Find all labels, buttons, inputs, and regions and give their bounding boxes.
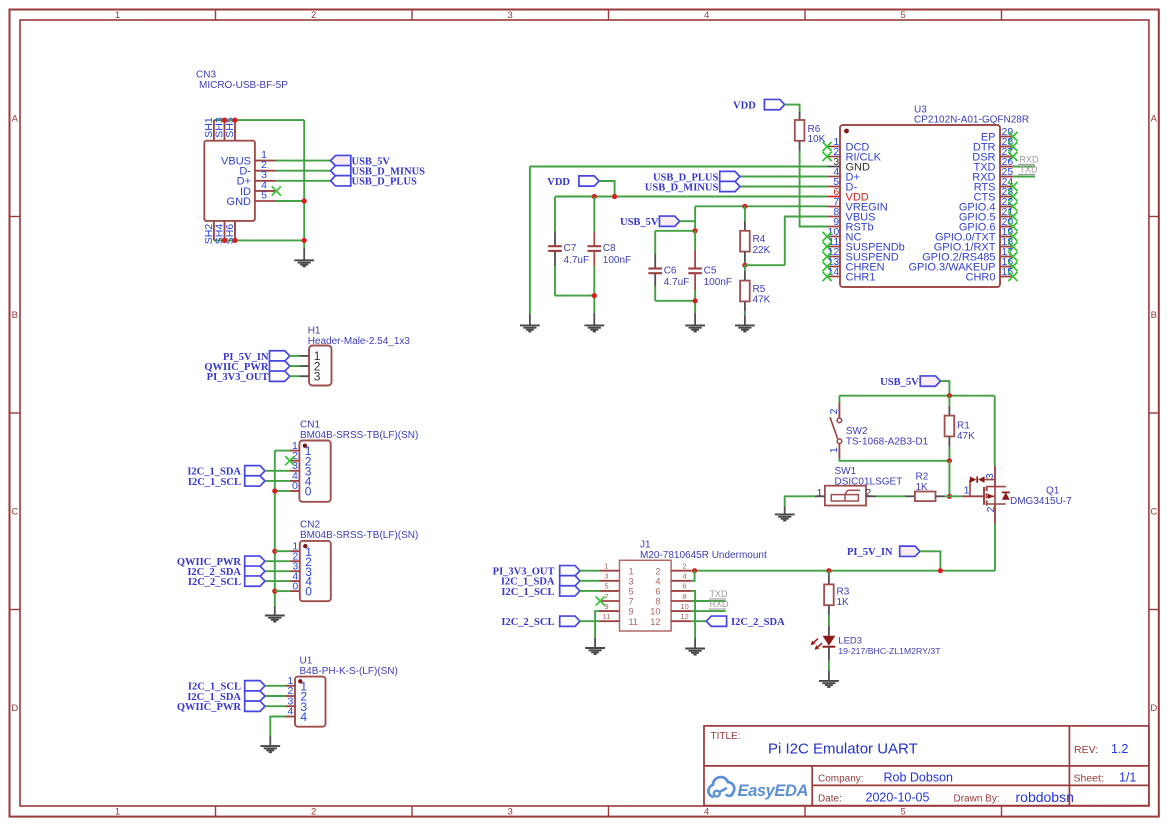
- pin J1.1: [600, 562, 634, 577]
- pin U1.2: [286, 685, 308, 703]
- no-connect X on U3.27: [1008, 152, 1017, 161]
- wire J1.9 to ground: [595, 611, 599, 638]
- wire I2C rail (CN1 pin1/0 to CN2): [274, 451, 276, 606]
- wire VBUS net to U3.8: [785, 217, 827, 266]
- net flag I2C_1_SCL at CN1.4: [188, 476, 265, 488]
- switch SW2 TS-1068-A2B3-D1: [828, 402, 929, 458]
- pin CN3.3 D+: [237, 169, 276, 188]
- pin SW1.1 wire to ground: [785, 496, 825, 506]
- svg-text:C: C: [1150, 507, 1157, 518]
- no-connect X on U3.16: [1008, 262, 1017, 271]
- pin SH5: [224, 117, 236, 141]
- switch SW1 body: [817, 486, 872, 506]
- svg-text:C6: C6: [664, 266, 677, 277]
- wire U1.2: [265, 695, 286, 697]
- svg-text:TITLE:: TITLE:: [711, 731, 741, 742]
- pin U3.26 TXD: [974, 156, 1014, 174]
- connector CN2 labels: [300, 520, 418, 541]
- pin J1.9: [600, 602, 634, 617]
- net flag I2C_1_SDA at CN1.3: [187, 466, 265, 478]
- resistor R6 10K: [795, 112, 826, 151]
- wire mid node to VBUS vertical: [745, 264, 785, 266]
- wire GND rail down (U3.3): [529, 167, 531, 315]
- svg-text:Pi I2C Emulator UART: Pi I2C Emulator UART: [768, 741, 918, 758]
- pin J1.4: [655, 572, 691, 587]
- resistor R5 47K: [740, 265, 771, 315]
- company cell: [818, 770, 953, 784]
- net flag I2C_2_SCL at CN2.4: [188, 576, 265, 588]
- wire CN1.4: [265, 480, 290, 482]
- no-connect X on CN3.4 ID: [272, 186, 281, 195]
- pin J1.3: [600, 572, 634, 587]
- svg-text:3: 3: [508, 807, 513, 818]
- wire U1.1: [265, 685, 286, 687]
- pin U3.23 CTS: [974, 186, 1014, 204]
- svg-text:4: 4: [655, 576, 660, 586]
- svg-text:R3: R3: [837, 586, 850, 597]
- svg-text:R4: R4: [753, 234, 766, 245]
- svg-text:4.7uF: 4.7uF: [664, 277, 690, 288]
- svg-text:1: 1: [115, 807, 120, 818]
- net flag USB_5V (switch area): [880, 376, 940, 388]
- svg-text:A: A: [1151, 114, 1158, 125]
- svg-text:I2C_1_SCL: I2C_1_SCL: [501, 587, 554, 598]
- pin U3.10 NC: [827, 226, 861, 244]
- wire CN1.1: [275, 450, 290, 452]
- no-connect X on U3.28: [1008, 142, 1017, 151]
- pin SH4: [214, 221, 226, 244]
- pin CN2.3: [290, 560, 312, 578]
- svg-text:5: 5: [901, 10, 906, 21]
- wire CN3.3 to USB_D_PLUS: [276, 180, 331, 182]
- svg-text:BM04B-SRSS-TB(LF)(SN): BM04B-SRSS-TB(LF)(SN): [300, 430, 418, 441]
- pin U3.4 D+: [827, 166, 860, 184]
- svg-text:PI_5V_IN: PI_5V_IN: [847, 547, 893, 558]
- wire Q1.3 to USB_5V bus: [994, 396, 996, 466]
- pin U3.3 GND: [827, 156, 870, 174]
- capacitor C5 100nF: [688, 231, 732, 313]
- svg-text:5: 5: [629, 587, 634, 597]
- svg-text:CN3: CN3: [196, 70, 216, 81]
- svg-text:Drawn By:: Drawn By:: [954, 794, 1000, 805]
- ground below R5: [735, 315, 755, 331]
- wire + net label TXD on U3.25: [1013, 165, 1038, 177]
- junction dot R1 bottom: [947, 458, 952, 463]
- wire PI_5V_IN drop: [920, 551, 940, 570]
- pin J1.11: [600, 612, 639, 627]
- junction dot C6/C5 bottom: [693, 298, 698, 303]
- svg-text:0: 0: [305, 585, 312, 599]
- svg-text:100nF: 100nF: [704, 277, 732, 288]
- pin CN3.4 ID: [240, 179, 276, 198]
- svg-text:R1: R1: [957, 421, 970, 432]
- connector CN1 labels: [300, 420, 418, 441]
- svg-text:1: 1: [629, 566, 634, 576]
- wire VDD rail to U3.6: [555, 196, 827, 198]
- svg-text:7: 7: [629, 597, 634, 607]
- wire CN1.3: [265, 470, 290, 472]
- connector CN3 labels: [196, 70, 288, 92]
- svg-text:2: 2: [311, 807, 316, 818]
- wire PI_3V3_OUT: [580, 570, 600, 572]
- ground at J1.9: [585, 638, 605, 654]
- pin SH3: [214, 117, 226, 141]
- svg-text:C7: C7: [564, 243, 577, 254]
- pin-1 dot U3: [844, 129, 849, 134]
- no-connect X on U3.11: [823, 242, 832, 251]
- no-connect X on U3.21: [1008, 212, 1017, 221]
- svg-text:I2C_2_SCL: I2C_2_SCL: [188, 577, 241, 588]
- wire R2 to Q1 gate: [945, 495, 962, 497]
- ground below LED3: [819, 670, 839, 687]
- no-connect X on U3.1: [823, 142, 832, 151]
- svg-text:1K: 1K: [916, 482, 929, 493]
- net flag I2C_2_SDA at CN2.3: [187, 566, 265, 578]
- svg-text:100nF: 100nF: [603, 255, 631, 266]
- wire CN2.4: [265, 580, 290, 582]
- svg-text:Sheet:: Sheet:: [1074, 772, 1104, 784]
- pin CN2.2: [290, 550, 312, 568]
- svg-text:USB_5V: USB_5V: [880, 377, 919, 388]
- wire CN2.0: [275, 590, 290, 592]
- wire CN2.2: [265, 560, 290, 562]
- svg-text:3: 3: [604, 572, 608, 581]
- pin-1 dot CN2: [303, 544, 307, 548]
- svg-text:0: 0: [292, 580, 298, 592]
- svg-text:2: 2: [655, 566, 660, 576]
- wire GND net (U3.3): [530, 166, 827, 168]
- svg-text:12: 12: [650, 617, 660, 627]
- svg-text:9: 9: [604, 602, 608, 611]
- ground at J1.6: [685, 639, 705, 655]
- pin SW1.2 wire: [866, 495, 905, 497]
- svg-text:9: 9: [629, 607, 634, 617]
- wire J1.12 to I2C_2_SDA: [691, 620, 706, 622]
- svg-text:VDD: VDD: [547, 177, 570, 188]
- LED3 19-217/BHC-ZL1M2RY/3T: [811, 626, 942, 661]
- pin J1.7: [600, 592, 634, 607]
- svg-text:Company:: Company:: [818, 773, 864, 784]
- switch SW1 DSIC01LSGET labels: [835, 466, 903, 487]
- svg-text:47K: 47K: [957, 431, 975, 442]
- pin H1.2: [290, 359, 321, 373]
- pin U3.8 VBUS: [827, 206, 875, 224]
- wire CN3 shield top bus: [214, 119, 304, 121]
- pin U3.27 DSR: [972, 146, 1013, 164]
- svg-text:SW2: SW2: [846, 426, 868, 437]
- resistor R3 1K: [824, 571, 850, 626]
- no-connect X on U3.10: [823, 232, 832, 241]
- date cell: [818, 789, 1074, 805]
- wire J1.6 to ground: [691, 591, 695, 639]
- svg-text:0: 0: [305, 485, 312, 499]
- no-connect X on U3.18: [1008, 242, 1017, 251]
- svg-text:2: 2: [682, 562, 686, 571]
- net flag QWIIC_PWR at U1.3: [177, 701, 265, 713]
- svg-text:MICRO-USB-BF-5P: MICRO-USB-BF-5P: [199, 80, 288, 91]
- net flag I2C_2_SDA (J1): [706, 616, 785, 628]
- no-connect X on U3.13: [823, 262, 832, 271]
- svg-text:5: 5: [901, 807, 906, 818]
- capacitor C7 4.7uF: [548, 197, 589, 296]
- net flag USB_D_MINUS: [331, 166, 426, 178]
- pin CN2.4: [290, 570, 312, 588]
- svg-text:I2C_2_SCL: I2C_2_SCL: [501, 617, 554, 628]
- wire U1.3: [265, 705, 286, 707]
- pin H1.3: [290, 370, 321, 384]
- pin U3.1 DCD: [827, 136, 869, 154]
- wire PI_5V bus: [691, 570, 995, 572]
- pin U3.28 DTR: [973, 136, 1013, 154]
- svg-text:B: B: [12, 310, 18, 321]
- net flag USB_D_MINUS (U3): [645, 181, 740, 193]
- pin U3.2 RI/CLK: [827, 146, 882, 164]
- wire + net label RXD on J1.10: [691, 599, 729, 611]
- junction dot C5 top: [693, 228, 698, 233]
- pin CN1.2: [290, 450, 312, 468]
- svg-text:11: 11: [603, 612, 611, 621]
- net flag I2C_1_SCL at U1.1: [188, 681, 265, 693]
- pin U3.6 VDD: [827, 186, 869, 204]
- junction dot R4/R5 mid: [742, 263, 747, 268]
- connector CN3 body: [204, 141, 255, 221]
- svg-text:5: 5: [261, 189, 267, 201]
- resistor R4 22K: [740, 206, 771, 265]
- svg-text:RXD: RXD: [1020, 155, 1040, 165]
- svg-text:USB_D_PLUS: USB_D_PLUS: [352, 177, 418, 188]
- net flag QWIIC_PWR at CN2.2: [177, 556, 265, 568]
- wire I2C_2_SCL: [580, 620, 600, 622]
- net flag USB_5V (mid): [620, 216, 680, 228]
- svg-text:3: 3: [508, 10, 513, 21]
- pin U3.24 RTS: [974, 176, 1014, 194]
- svg-text:4: 4: [704, 10, 709, 21]
- wire top bus to SW2.2: [838, 396, 840, 403]
- pin CN1.3: [290, 460, 312, 478]
- svg-text:USB_5V: USB_5V: [620, 217, 659, 228]
- svg-text:1: 1: [828, 447, 840, 453]
- connector J1 body: [620, 560, 672, 631]
- pin U3.18 GPIO.1/RXT: [934, 236, 1014, 254]
- svg-text:R5: R5: [753, 284, 766, 295]
- pin U3.21 GPIO.5: [959, 206, 1014, 224]
- wire CN2.1: [275, 550, 290, 552]
- net flag PI_5V_IN at H1.1: [223, 351, 290, 363]
- svg-text:B: B: [1151, 310, 1157, 321]
- capacitor C6 4.7uF: [648, 231, 689, 301]
- no-connect X on U3.23: [1008, 192, 1017, 201]
- pin U3.19 GPIO.0/TXT: [935, 226, 1013, 244]
- svg-text:Date:: Date:: [818, 794, 842, 805]
- svg-text:4: 4: [682, 572, 686, 581]
- wire CN1.0: [275, 490, 290, 492]
- wire + net label RXD on U3.26: [1013, 155, 1039, 167]
- net flag VDD (left): [547, 176, 599, 188]
- svg-text:47K: 47K: [753, 295, 771, 306]
- resistor R2 1K: [905, 472, 945, 502]
- connector CN1 body: [299, 441, 330, 502]
- wire I2C_1_SDA: [580, 580, 600, 582]
- svg-text:C8: C8: [603, 243, 616, 254]
- svg-text:GND: GND: [227, 196, 252, 208]
- wire CN3.5 GND: [276, 200, 305, 202]
- net flag PI_3V3_OUT at J1: [493, 566, 580, 578]
- no-connect X on U3.14: [823, 272, 832, 281]
- EasyEDA logo: [708, 777, 808, 800]
- pin J1.2: [655, 562, 691, 577]
- ground below U1: [260, 736, 280, 752]
- pin U1.1: [286, 675, 308, 693]
- net flag USB_D_PLUS (U3): [653, 171, 740, 183]
- svg-text:2: 2: [828, 408, 840, 414]
- connector CN2 body: [300, 541, 331, 601]
- ground below CN2: [265, 606, 285, 622]
- transistor Q1 DMG3415U-7: [962, 466, 1072, 524]
- no-connect X on U3.19: [1008, 232, 1017, 241]
- svg-text:0: 0: [292, 480, 298, 492]
- svg-text:1K: 1K: [837, 597, 850, 608]
- svg-text:PI_3V3_OUT: PI_3V3_OUT: [207, 372, 269, 383]
- IC U3 labels: [914, 104, 1029, 125]
- svg-text:3: 3: [314, 370, 321, 384]
- junction dots on rail: [272, 488, 277, 593]
- pin U3.15 CHR0: [966, 266, 1014, 284]
- svg-text:4: 4: [288, 706, 294, 718]
- connector J1 labels: [640, 540, 767, 561]
- wire SW2.1 bottom bus: [839, 459, 949, 461]
- net flag VDD (top): [733, 99, 785, 111]
- wire USB_D_MINUS to U3.5: [740, 186, 827, 188]
- junction dot R4 top: [742, 204, 747, 209]
- pin U3.5 D-: [827, 176, 857, 194]
- connector U1 labels: [300, 656, 398, 677]
- wire VREGIN vertical: [694, 206, 696, 231]
- svg-text:1: 1: [964, 485, 970, 497]
- no-connect X on J1.7: [596, 596, 605, 605]
- svg-text:I2C_2_SDA: I2C_2_SDA: [731, 617, 785, 628]
- wire SW2/R1 top bus: [839, 395, 994, 397]
- wire J1.4 up to bus: [691, 571, 695, 581]
- pin CN2.0: [290, 580, 312, 598]
- header H1 body: [309, 346, 332, 386]
- svg-text:QWIIC_PWR: QWIIC_PWR: [177, 702, 242, 713]
- pin U3.29 EP: [981, 126, 1014, 144]
- pin U3.20 GPIO.6: [959, 216, 1014, 234]
- wire CN3 ground rail: [303, 120, 305, 248]
- title text: [711, 731, 918, 758]
- pin U3.13 CHREN: [827, 256, 885, 274]
- svg-text:3: 3: [629, 576, 634, 586]
- pin J1.12: [650, 612, 691, 627]
- svg-text:8: 8: [682, 592, 686, 601]
- pin J1.8: [655, 592, 691, 607]
- svg-text:1/1: 1/1: [1119, 770, 1136, 784]
- pin U3.9 RSTb: [827, 216, 874, 234]
- svg-text:RXD: RXD: [710, 599, 730, 609]
- pin J1.5: [600, 582, 634, 597]
- svg-text:6: 6: [655, 587, 660, 597]
- capacitor C8 100nF: [588, 197, 632, 313]
- svg-text:1.2: 1.2: [1111, 742, 1128, 756]
- svg-text:7: 7: [604, 592, 608, 601]
- wire C6 bottom link: [655, 300, 695, 302]
- pin J1.10: [650, 602, 691, 617]
- header H1 labels: [308, 326, 411, 347]
- wire C6 top link: [655, 230, 695, 232]
- svg-text:USB_D_MINUS: USB_D_MINUS: [645, 182, 719, 193]
- pin SH1: [203, 117, 215, 141]
- svg-text:VDD: VDD: [733, 101, 756, 112]
- svg-text:12: 12: [680, 612, 688, 621]
- wire RSTb from R6 to U3.9: [800, 151, 828, 227]
- net flag USB_5V: [331, 155, 391, 167]
- ground below C8: [584, 313, 604, 332]
- wire VREGIN net (U3.7): [695, 205, 827, 207]
- wire CN3 shield bottom bus: [214, 239, 304, 241]
- no-connect X on U3.24: [1008, 182, 1017, 191]
- no-connect X on U3.20: [1008, 222, 1017, 231]
- net flag I2C_2_SCL at J1: [501, 616, 580, 628]
- wire USB_5V flag to node: [680, 220, 695, 222]
- pin U3.12 SUSPEND: [827, 246, 899, 264]
- ground below CN3: [294, 248, 314, 266]
- svg-text:D: D: [1150, 703, 1157, 714]
- net flag I2C_1_SDA at J1: [501, 576, 580, 588]
- pin U3.11 SUSPENDb: [827, 236, 905, 254]
- no-connect X on U3.22: [1008, 202, 1017, 211]
- rev cell: [1074, 742, 1128, 756]
- wire VDD flag drop: [599, 181, 614, 197]
- svg-text:6: 6: [682, 582, 686, 591]
- wire R1 bottom to gate node: [948, 461, 950, 497]
- pin CN3.5 GND: [227, 189, 276, 208]
- wire CN3.2 to USB_D_MINUS: [276, 170, 331, 172]
- svg-text:D: D: [11, 703, 18, 714]
- resistor R1 47K: [945, 396, 976, 461]
- svg-text:CHR1: CHR1: [846, 271, 876, 283]
- wire VDD flag to R6: [785, 105, 800, 112]
- pin U1.3: [286, 695, 308, 713]
- svg-text:4: 4: [704, 807, 709, 818]
- svg-text:1: 1: [604, 562, 608, 571]
- no-connect X on U3.17: [1008, 252, 1017, 261]
- wire C7 bottom: [555, 295, 594, 297]
- no-connect X on U3.15: [1008, 272, 1017, 281]
- net flag USB_D_PLUS: [331, 176, 418, 188]
- pin U3.7 VREGIN: [827, 196, 888, 214]
- pin-1 dot U1: [298, 679, 302, 683]
- svg-text:EasyEDA: EasyEDA: [738, 782, 809, 800]
- net flag PI_5V_IN: [847, 546, 920, 558]
- no-connect X on U3.12: [823, 252, 832, 261]
- connector U1 body: [295, 677, 326, 727]
- pin U3.16 GPIO.3/WAKEUP: [908, 256, 1013, 274]
- junction dot gate node: [947, 494, 952, 499]
- pin SH2: [203, 221, 215, 244]
- ground for U3 GND: [520, 314, 540, 332]
- svg-text:10: 10: [680, 602, 688, 611]
- svg-text:DMG3415U-7: DMG3415U-7: [1010, 496, 1072, 507]
- svg-text:10K: 10K: [808, 134, 826, 145]
- junction dots on VDD rail: [592, 194, 618, 199]
- wire LED3 to ground: [828, 661, 830, 670]
- svg-text:8: 8: [655, 597, 660, 607]
- pin U3.14 CHR1: [827, 266, 875, 284]
- svg-text:3: 3: [984, 473, 996, 479]
- wire CN2.3: [265, 570, 290, 572]
- pin CN1.0: [290, 480, 312, 498]
- pin CN3.1 VBUS: [221, 149, 275, 168]
